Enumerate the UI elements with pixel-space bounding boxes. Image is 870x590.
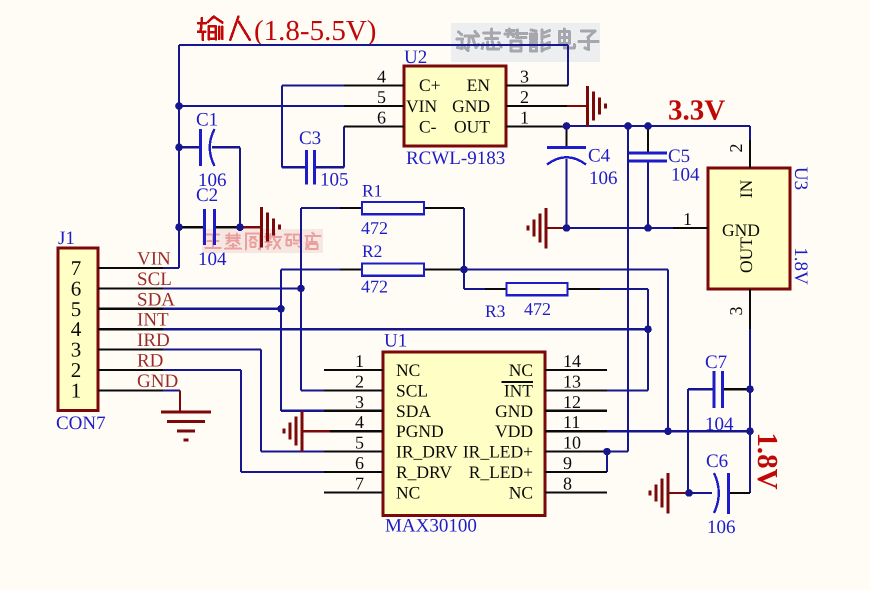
svg-text:1.8V: 1.8V	[751, 432, 783, 489]
junction VIN bus / C1	[175, 144, 183, 152]
wire RD to U1 pin6	[163, 370, 383, 472]
ground at 3.3V filter rail	[528, 208, 546, 249]
svg-text:6: 6	[355, 453, 364, 473]
svg-text:NC: NC	[509, 360, 533, 380]
svg-text:PGND: PGND	[396, 421, 444, 441]
title 输入(1.8-5.5V)	[198, 15, 376, 47]
net label SCL	[137, 269, 172, 290]
wire VIN bus	[178, 45, 180, 268]
svg-text:106: 106	[707, 517, 736, 538]
svg-text:1: 1	[520, 107, 529, 127]
wire R1 right link	[340, 208, 464, 289]
earth ground at J1 GND	[161, 390, 211, 440]
svg-text:8: 8	[563, 473, 572, 493]
junction INT / R3	[644, 325, 652, 333]
junction VIN bus / U2 pin5	[175, 102, 183, 110]
svg-text:RD: RD	[137, 351, 163, 372]
svg-text:VDD: VDD	[495, 421, 533, 441]
wire SCL riser to R1 and U1 pin2	[301, 208, 383, 390]
wire C5 branch	[647, 126, 649, 228]
junction SDA / R2	[277, 305, 285, 313]
svg-text:R_LED+: R_LED+	[469, 462, 533, 482]
svg-text:1: 1	[355, 351, 364, 371]
capacitor C4 106	[547, 146, 618, 190]
wire C7-C6 ground link	[687, 389, 689, 493]
wire pull-up node to VDD	[667, 270, 669, 432]
svg-text:104: 104	[671, 165, 700, 186]
junction SCL / R1	[297, 285, 305, 293]
svg-text:6: 6	[377, 107, 386, 127]
svg-text:INT: INT	[504, 380, 533, 400]
svg-text:GND: GND	[722, 220, 760, 240]
svg-text:472: 472	[361, 218, 388, 238]
watermark band 王基阁数码店	[202, 229, 323, 253]
regulator U2 RCWL-9183	[344, 47, 568, 169]
svg-text:NC: NC	[396, 482, 420, 502]
resistor R3 472	[485, 283, 568, 321]
resistor R1 472	[361, 181, 424, 239]
svg-text:2: 2	[355, 371, 364, 391]
svg-text:104: 104	[198, 249, 227, 270]
svg-text:106: 106	[589, 168, 618, 189]
svg-text:R2: R2	[362, 241, 382, 261]
svg-text:10: 10	[563, 433, 581, 453]
svg-text:EN: EN	[467, 75, 491, 95]
wire J1 pin7 VIN row	[163, 267, 179, 269]
net label INT	[137, 310, 169, 331]
capacitor C3 105	[299, 128, 349, 191]
wire U3 out down	[749, 329, 751, 493]
svg-text:SDA: SDA	[137, 289, 175, 310]
svg-text:5: 5	[355, 433, 364, 453]
svg-text:1: 1	[71, 378, 82, 402]
svg-text:CON7: CON7	[56, 413, 106, 434]
wire 3.3V to LED drive	[607, 126, 628, 472]
svg-text:SCL: SCL	[137, 269, 172, 290]
wire R3 right to INT	[568, 289, 649, 390]
svg-text:R3: R3	[485, 301, 506, 321]
svg-text:C+: C+	[419, 75, 441, 95]
svg-text:3.3V: 3.3V	[668, 95, 725, 127]
wire input top rail	[179, 45, 568, 86]
svg-text:C4: C4	[588, 146, 611, 167]
capacitor C1 106	[196, 110, 227, 192]
svg-text:C-: C-	[419, 117, 437, 137]
svg-text:IR_LED+: IR_LED+	[463, 442, 533, 462]
power label 1.8V	[751, 432, 783, 489]
svg-text:RCWL-9183: RCWL-9183	[406, 148, 505, 169]
wire SDA riser to R2 and U1 pin3	[281, 270, 383, 411]
svg-text:7: 7	[355, 473, 364, 493]
wire C7 row	[688, 388, 750, 390]
svg-text:IRD: IRD	[137, 330, 170, 351]
wire IRD to U1 pin5	[163, 350, 383, 452]
wire GND rail	[546, 227, 673, 229]
svg-text:NC: NC	[396, 360, 420, 380]
wire U2 pin4 to C3	[282, 86, 344, 168]
svg-text:GND: GND	[452, 96, 490, 116]
wire INT row	[163, 328, 648, 330]
svg-text:14: 14	[563, 351, 581, 371]
svg-text:U1: U1	[384, 331, 407, 352]
watermark band 诚志智能电子	[451, 23, 600, 62]
svg-text:13: 13	[563, 371, 581, 391]
svg-text:1.8V: 1.8V	[790, 247, 811, 285]
wire U2 pin5 VIN	[179, 105, 344, 107]
ground at C6	[650, 473, 689, 514]
svg-text:MAX30100: MAX30100	[385, 516, 477, 537]
ground at C2	[240, 207, 280, 248]
svg-text:4: 4	[355, 412, 364, 432]
wire SDA row	[163, 308, 281, 310]
svg-text:IN: IN	[736, 179, 756, 198]
svg-text:5: 5	[377, 87, 386, 107]
svg-text:3: 3	[726, 307, 746, 316]
ground at U2 pin2 GND	[567, 86, 606, 127]
power label 3.3V	[668, 95, 725, 127]
svg-text:R1: R1	[362, 181, 382, 201]
svg-text:U3: U3	[790, 167, 811, 190]
ground at U1 PGND	[284, 411, 330, 452]
wire R2 right row to pull-up node	[340, 268, 668, 270]
svg-text:GND: GND	[137, 371, 178, 392]
net label GND	[137, 371, 178, 392]
junction VDD row / 1.8V	[746, 427, 754, 435]
svg-text:GND: GND	[495, 401, 533, 421]
junction GND rail / C5	[644, 224, 652, 232]
svg-text:472: 472	[361, 277, 388, 297]
svg-text:4: 4	[377, 67, 386, 87]
svg-text:2: 2	[520, 87, 529, 107]
regulator U3 1.8V	[673, 140, 811, 329]
svg-text:C6: C6	[706, 451, 728, 472]
wire R3 left	[464, 288, 507, 290]
wire C4 branch	[565, 126, 567, 228]
wire VDD 1.8V row	[607, 430, 750, 432]
junction C6 / ground	[685, 489, 693, 497]
svg-text:(1.8-5.5V): (1.8-5.5V)	[254, 15, 376, 47]
wire 3.3V rail	[566, 126, 750, 140]
svg-text:105: 105	[320, 170, 349, 191]
capacitor C5 104	[629, 146, 700, 186]
resistor R2 472	[361, 241, 424, 297]
svg-text:C3: C3	[299, 128, 321, 149]
junction IR_LED / R_LED	[603, 448, 611, 456]
capacitor C6 106	[706, 451, 736, 538]
capacitor C7 104	[705, 352, 734, 435]
svg-text:C7: C7	[705, 352, 727, 373]
sensor U1 MAX30100	[324, 331, 607, 537]
svg-text:OUT: OUT	[736, 237, 756, 273]
svg-text:NC: NC	[509, 482, 533, 502]
junction 3.3V / C4	[563, 122, 571, 130]
wire C3 to U2 pin6	[315, 126, 374, 167]
junction pull-up / VDD	[664, 427, 672, 435]
net label SDA	[137, 289, 175, 310]
svg-text:C1: C1	[196, 110, 218, 131]
wire J1 GND row	[163, 389, 180, 391]
junction GND rail / C4	[563, 224, 571, 232]
wire C6 row	[689, 492, 750, 494]
junction pull-up node R1 R2	[460, 266, 468, 274]
svg-text:12: 12	[563, 392, 581, 412]
wire C1-C2 link	[239, 147, 241, 227]
net label IRD	[137, 330, 170, 351]
svg-text:11: 11	[563, 412, 580, 432]
svg-text:R_DRV: R_DRV	[396, 462, 452, 482]
wire C2 row	[179, 226, 240, 228]
net label VIN	[137, 249, 171, 270]
svg-text:C2: C2	[196, 185, 218, 206]
junction VIN bus / C2	[175, 223, 183, 231]
svg-text:OUT: OUT	[454, 117, 490, 137]
junction C7 / 1.8V	[746, 385, 754, 393]
svg-text:INT: INT	[137, 310, 169, 331]
connector J1 CON7	[56, 228, 163, 434]
junction 3.3V / C5	[644, 122, 652, 130]
junction 3.3V / LED rail	[624, 122, 632, 130]
wire SCL row	[163, 287, 301, 289]
svg-text:VIN: VIN	[406, 96, 437, 116]
svg-text:SCL: SCL	[396, 380, 428, 400]
svg-text:SDA: SDA	[396, 401, 431, 421]
svg-text:3: 3	[355, 392, 364, 412]
svg-text:1: 1	[683, 209, 692, 229]
svg-text:9: 9	[563, 453, 572, 473]
junction C1-C2 right node	[236, 223, 244, 231]
svg-text:472: 472	[524, 299, 551, 319]
svg-text:3: 3	[520, 67, 529, 87]
svg-text:VIN: VIN	[137, 249, 171, 270]
net label RD	[137, 351, 163, 372]
capacitor C2 104	[196, 185, 227, 270]
svg-text:2: 2	[726, 144, 746, 153]
svg-text:104: 104	[705, 414, 734, 435]
wire C1 row	[179, 146, 240, 148]
svg-text:J1: J1	[58, 228, 75, 249]
svg-text:IR_DRV: IR_DRV	[396, 442, 458, 462]
